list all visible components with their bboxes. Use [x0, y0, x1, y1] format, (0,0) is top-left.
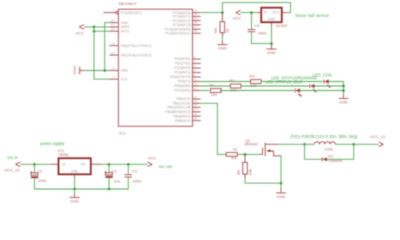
wire AVCC pin to vertical VCC rail — [94, 30, 109, 32]
svg-text:7805L: 7805L — [58, 152, 70, 157]
capacitor C4 100n — [248, 23, 267, 35]
svg-text:VCC: VCC — [75, 31, 84, 36]
IC1 right pin 13 PD7(AIN1) — [174, 86, 201, 92]
wire source down to GND row — [280, 156, 282, 183]
svg-text:GND: GND — [339, 100, 348, 105]
svg-text:PD0(RXD): PD0(RXD) — [175, 57, 191, 61]
svg-text:26: 26 — [194, 21, 198, 25]
wire PD5 row to R3 — [201, 81, 251, 83]
LED LED_STATUS_IDLE — [295, 88, 302, 96]
hall OUT pin stub — [282, 12, 287, 14]
resistor R6 vertical — [213, 13, 229, 44]
wire vertical VCC rail down to pin 7 — [94, 27, 109, 79]
wire hall GND down — [271, 27, 273, 45]
svg-text:2: 2 — [194, 55, 196, 59]
wire R3 to LED_COIL led — [261, 81, 323, 83]
IC1 left pin 20 AVCC — [109, 27, 130, 33]
svg-text:100n: 100n — [38, 178, 47, 183]
node junction hall GND — [270, 42, 273, 45]
svg-text:R2: R2 — [229, 78, 235, 83]
node junction VCC/AREF — [93, 26, 96, 29]
IC1 right pin 19 PB5(SCK) — [175, 116, 201, 122]
wire VCC arrow to AREF pin — [84, 26, 109, 28]
wire C3 to gnd rail — [108, 178, 110, 189]
node junction C3 gnd — [108, 188, 111, 191]
resistor R2 — [229, 78, 241, 92]
wire GND row stub down — [280, 183, 282, 188]
svg-text:linear hall sensor: linear hall sensor — [296, 13, 330, 18]
svg-text:GND: GND — [121, 69, 129, 73]
svg-text:VI: VI — [62, 163, 65, 167]
resistor R4 — [226, 147, 237, 161]
wire R4 to gate — [237, 153, 260, 155]
svg-text:PD4(XCK/T0): PD4(XCK/T0) — [170, 75, 191, 79]
svg-text:PD2(INT0): PD2(INT0) — [174, 66, 190, 70]
svg-text:ZYE1-P25/30 (12V 0.33A, 5BN, 5: ZYE1-P25/30 (12V 0.33A, 5BN, 5Kg) — [290, 134, 358, 139]
wire C4 to hall GND net — [252, 32, 272, 43]
wire C4 branch down — [251, 13, 253, 30]
svg-text:IRF640: IRF640 — [245, 142, 259, 147]
svg-text:GND: GND — [218, 46, 227, 51]
svg-text:100: 100 — [210, 92, 217, 97]
wire R1 to LED_STATUS_IDLE led — [220, 90, 295, 92]
svg-text:vcc in: vcc in — [7, 155, 18, 160]
svg-text:R6: R6 — [213, 27, 218, 33]
svg-text:MEGA8-P: MEGA8-P — [119, 1, 137, 6]
IC1 left pin 7 VCC — [109, 75, 128, 81]
IC1 right pin 25 PC2(ADC2) — [173, 16, 201, 22]
svg-text:28: 28 — [194, 29, 198, 33]
wire LED_COIL to GND rail — [329, 82, 344, 95]
capacitor C2 100u polarized — [31, 168, 47, 182]
svg-text:17: 17 — [194, 108, 198, 112]
wire C1 to gnd rail — [75, 178, 129, 189]
svg-text:GND: GND — [277, 194, 286, 199]
svg-text:VO: VO — [81, 163, 86, 167]
supply symbol VCC (hall sensor) — [233, 10, 242, 20]
wire LED_STATUS/RUNNING to GND rail — [315, 85, 344, 87]
hall IN pin stub — [258, 12, 262, 14]
svg-text:R4: R4 — [231, 156, 237, 161]
svg-text:19: 19 — [194, 116, 198, 120]
wire PB1 pin15 to gate drive — [201, 103, 227, 154]
svg-text:GND: GND — [267, 50, 276, 55]
IC1 right pin 17 PB3(MOSI/OC2) — [165, 108, 200, 114]
wire psu input — [20, 163, 51, 165]
wire diode to right node — [327, 144, 354, 159]
wire gnd rail stub down — [74, 189, 76, 193]
regulator IC2 7805L body — [58, 148, 91, 174]
node junction PC0 / R6 / feedback — [221, 11, 224, 14]
ground symbol (below hall sensor) — [267, 49, 277, 55]
node junction VCC/AVCC — [93, 30, 96, 33]
svg-text:OUT: OUT — [272, 11, 279, 15]
wire C2 branch down — [34, 164, 36, 173]
ground symbol (MOSFET source) — [276, 193, 286, 199]
svg-text:C1: C1 — [132, 168, 138, 173]
node junction gate / R5 — [244, 153, 247, 156]
svg-text:PD7(AIN1): PD7(AIN1) — [174, 89, 190, 93]
IC1 left pin 9 PB6(XTAL1/TOSC1) — [109, 41, 151, 47]
IC1 right pin 12 PD6(AIN0) — [174, 82, 201, 88]
svg-text:C2: C2 — [37, 168, 43, 173]
LED LED_STATUS/RUNNING — [310, 84, 317, 92]
svg-text:R3: R3 — [249, 74, 255, 79]
wire C1 branch down — [127, 164, 129, 174]
svg-text:R1: R1 — [210, 83, 216, 88]
svg-text:1k: 1k — [233, 147, 237, 152]
IC1 right pin 6 PD4(XCK/T0) — [170, 73, 201, 79]
wire drain to coil node — [278, 143, 305, 145]
IC1 right pin 4 PD2(INT0) — [174, 64, 200, 70]
svg-text:power supply: power supply — [40, 141, 65, 146]
svg-text:VCC: VCC — [233, 16, 242, 21]
ground symbol (below R6) — [218, 45, 228, 51]
svg-text:11: 11 — [194, 77, 197, 81]
wire VO to output arrow — [101, 163, 147, 165]
IC1 right pin 15 PB1(OC1A) — [173, 99, 201, 105]
svg-text:LED_STATUS_IDLE: LED_STATUS_IDLE — [265, 79, 302, 84]
IC1 left pin 8 GND — [109, 66, 128, 72]
IC1 right pin 16 PB2(SS/OC1B) — [167, 103, 200, 109]
svg-text:IC1: IC1 — [119, 130, 126, 135]
svg-text:PD5(T1): PD5(T1) — [178, 80, 191, 84]
ground symbol (psu) — [70, 198, 80, 204]
svg-text:PB7(XTAL2/TOSC2): PB7(XTAL2/TOSC2) — [121, 53, 152, 57]
wire feedback top line to hall OUT — [222, 3, 290, 13]
inductor COIL — [305, 142, 354, 152]
resistor R1 — [210, 83, 222, 97]
svg-text:PB4(MISO): PB4(MISO) — [173, 114, 190, 118]
svg-text:VCC_12: VCC_12 — [4, 168, 20, 173]
IC1 right pin 26 PC3(ADC3) — [173, 21, 201, 27]
wire PC0 pin23 to node — [201, 12, 223, 14]
svg-text:10k: 10k — [247, 169, 252, 175]
transistor Q1 IRF640 — [245, 138, 281, 156]
regulator VI pin stub — [51, 163, 58, 165]
svg-text:10: 10 — [111, 51, 115, 55]
node junction source GND — [280, 182, 283, 185]
IC1 right pin 11 PD5(T1) — [178, 77, 201, 83]
hall sensor U2 A1302 body — [261, 8, 288, 29]
wire GND pin22 to vertical GND rail — [105, 23, 110, 71]
supply symbol VCC_12 (coil) — [370, 134, 386, 146]
svg-text:GND: GND — [70, 199, 79, 204]
svg-text:3: 3 — [194, 59, 196, 63]
LED LED_COIL — [324, 79, 331, 87]
IC1 right pin 24 PC1(ADC1) — [173, 12, 201, 18]
wire left node down to diode row — [305, 144, 323, 159]
svg-text:PC6(/RESET): PC6(/RESET) — [121, 11, 142, 15]
supply symbol VCC (left of IC1) — [75, 25, 84, 36]
svg-text:VCC: VCC — [148, 155, 157, 160]
svg-text:PB5(SCK): PB5(SCK) — [175, 119, 191, 123]
svg-text:GND: GND — [71, 169, 79, 173]
svg-text:20: 20 — [111, 27, 115, 31]
svg-text:16: 16 — [194, 103, 198, 107]
wire LED_STATUS_IDLE to GND rail — [300, 90, 344, 92]
svg-text:AVCC: AVCC — [121, 29, 131, 33]
svg-text:10u: 10u — [114, 179, 121, 184]
svg-text:PD6(AIN0): PD6(AIN0) — [174, 84, 190, 88]
IC1 right pin 3 PD1(TXD) — [175, 59, 201, 65]
svg-text:C4: C4 — [254, 23, 260, 28]
svg-text:VCC: VCC — [121, 77, 129, 81]
wire regulator GND down — [74, 178, 76, 189]
supply symbol VCC (psu output) — [147, 155, 156, 166]
node junction GND rail / pin8 — [103, 69, 106, 72]
svg-text:PB3(MOSI/OC2): PB3(MOSI/OC2) — [165, 110, 190, 114]
IC1 MEGA8-P body — [118, 1, 192, 136]
svg-text:8: 8 — [113, 66, 115, 70]
ground symbol (LED rail) — [339, 99, 349, 105]
svg-text:PD3(INT1): PD3(INT1) — [174, 71, 190, 75]
resistor R5 vertical — [236, 154, 252, 183]
svg-text:7: 7 — [113, 75, 115, 79]
svg-text:PD1(TXD): PD1(TXD) — [175, 62, 191, 66]
node junction LED rail row2 — [342, 85, 345, 88]
regulator GND pin stub — [74, 174, 76, 178]
wire GND pin8 row — [84, 70, 109, 72]
node junction C3 — [108, 163, 111, 166]
IC1 right pin 5 PD3(INT1) — [174, 68, 200, 74]
svg-text:1k: 1k — [225, 29, 230, 33]
diode D1 1N4004 — [322, 153, 343, 163]
svg-text:12: 12 — [194, 82, 198, 86]
resistor R3 — [249, 74, 261, 88]
node junction coil right — [352, 143, 355, 146]
node junction LED rail row3 — [342, 89, 345, 92]
wire PD7 row to R1 — [201, 90, 210, 92]
node junction psu gnd rail — [73, 188, 76, 191]
capacitor C3 10u polarized — [105, 168, 121, 183]
regulator VO pin stub — [91, 163, 101, 165]
svg-text:R5: R5 — [236, 169, 241, 175]
svg-text:vcc out: vcc out — [159, 164, 173, 169]
IC1 left pin 21 AREF — [109, 23, 129, 29]
IC1 right pin 27 PC4(ADC4/SDA) — [165, 25, 201, 31]
hall GND pin stub — [271, 22, 273, 27]
IC1 right pin 2 PD0(RXD) — [175, 55, 201, 61]
svg-text:PB2(SS/OC1B): PB2(SS/OC1B) — [167, 106, 190, 110]
ground symbol (left of IC1, rotated) — [72, 66, 85, 75]
svg-text:13: 13 — [194, 86, 198, 90]
svg-text:PC3(ADC3): PC3(ADC3) — [173, 23, 191, 27]
svg-text:GND: GND — [268, 17, 276, 21]
svg-text:5: 5 — [194, 68, 196, 72]
capacitor C1 100n — [125, 168, 142, 183]
svg-text:1: 1 — [113, 8, 115, 12]
node junction C2 — [33, 163, 36, 166]
wire R5 bottom to GND row — [245, 182, 281, 184]
node junction C1 — [127, 163, 130, 166]
svg-text:18: 18 — [194, 112, 198, 116]
svg-text:9: 9 — [113, 41, 115, 45]
svg-text:PC5(ADC5/SCL): PC5(ADC5/SCL) — [165, 32, 190, 36]
svg-text:C3: C3 — [111, 168, 117, 173]
wire C3 branch down — [108, 164, 110, 173]
wire R2 to LED_STATUS/RUNNING led — [241, 85, 309, 87]
svg-text:IN: IN — [263, 11, 267, 15]
IC1 left pin 10 PB7(XTAL2/TOSC2) — [109, 51, 151, 57]
IC1 right pin 14 PB0(ICP) — [176, 95, 200, 101]
node junction VCC / C4 / IN — [250, 11, 253, 14]
IC1 right pin 18 PB4(MISO) — [173, 112, 200, 118]
svg-text:A1302: A1302 — [276, 23, 288, 28]
node junction coil left — [303, 143, 306, 146]
IC1 right pin 23 PC0(ADC0) — [173, 8, 201, 15]
svg-text:PB6(XTAL1/TOSC1): PB6(XTAL1/TOSC1) — [121, 44, 152, 48]
IC1 left pin 22 GND — [109, 18, 128, 24]
svg-text:COIL: COIL — [324, 146, 334, 151]
IC1 right pin 28 PC5(ADC5/SCL) — [165, 29, 201, 35]
wire PD6 row to R2 — [201, 85, 231, 87]
svg-text:6: 6 — [194, 73, 196, 77]
supply symbol VCC_12 (psu input) — [4, 162, 20, 173]
svg-text:100n: 100n — [133, 178, 142, 183]
IC1 left pin 1 PC6(/RESET) — [104, 8, 142, 15]
svg-text:VCC_12: VCC_12 — [370, 134, 386, 139]
svg-text:100n: 100n — [258, 31, 267, 36]
wire VCC to hall IN — [241, 12, 258, 14]
svg-text:4: 4 — [194, 64, 196, 68]
svg-text:GND: GND — [72, 66, 77, 75]
wire coil right to VCC_12 arrow — [354, 143, 379, 145]
wire C2 to gnd rail — [35, 178, 75, 189]
